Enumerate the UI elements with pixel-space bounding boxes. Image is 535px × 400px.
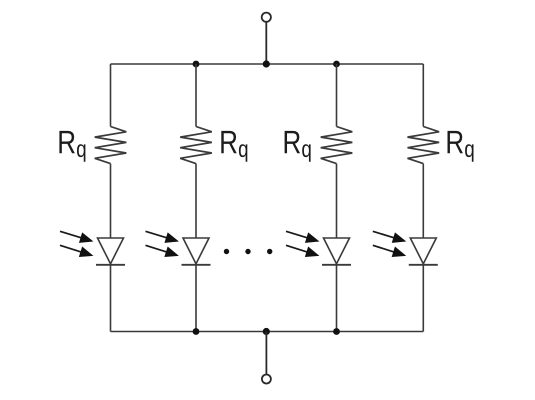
wire bottom rail	[111, 331, 424, 333]
node top branch 3	[333, 61, 340, 68]
wire branch 1 lower	[110, 265, 112, 332]
wire branch 4 lower	[422, 265, 424, 332]
resistor Rq branch 4	[408, 127, 440, 164]
node bottom center	[263, 328, 270, 335]
wire branch 2 middle	[195, 164, 197, 238]
wire branch 3 upper	[336, 64, 338, 127]
photodiode D1 with light arrows	[58, 226, 125, 265]
photodiode D4 with light arrows	[371, 226, 438, 265]
wire branch 4 middle	[422, 164, 424, 238]
node bottom branch 3	[333, 328, 340, 335]
node top branch 2	[193, 61, 200, 68]
node bottom branch 2	[193, 328, 200, 335]
node top center	[263, 60, 270, 67]
wire branch 3 middle	[336, 164, 338, 238]
wire bottom stub	[265, 332, 267, 375]
wire branch 2 lower	[195, 265, 197, 332]
ellipsis continuation dots	[224, 249, 273, 254]
bottom terminal	[262, 375, 271, 384]
wire top stub	[265, 22, 267, 64]
wire branch 2 upper	[195, 64, 197, 127]
wire top rail	[111, 63, 424, 65]
label Rq branch 4	[448, 131, 474, 162]
resistor Rq branch 3	[321, 127, 353, 164]
wire branch 3 lower	[336, 265, 338, 332]
label Rq branch 2	[221, 131, 247, 162]
wire branch 1 upper	[110, 64, 112, 127]
resistor Rq branch 1	[95, 127, 127, 164]
top terminal	[262, 13, 271, 22]
wire branch 1 middle	[110, 164, 112, 238]
resistor Rq branch 2	[180, 127, 212, 164]
photodiode D2 with light arrows	[144, 226, 211, 265]
photodiode D3 with light arrows	[284, 226, 351, 265]
label Rq branch 1	[59, 131, 85, 162]
wire branch 4 upper	[422, 64, 424, 127]
label Rq branch 3	[285, 131, 311, 162]
